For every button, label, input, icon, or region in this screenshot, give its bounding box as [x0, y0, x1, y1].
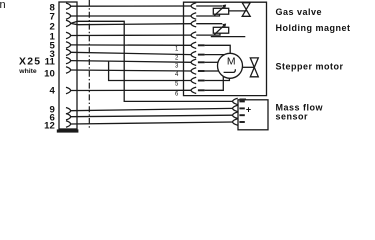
svg-text:sensor: sensor [276, 112, 309, 122]
wire pin 1 to holding magnet b [71, 34, 191, 36]
wire pin 5 to stepper 1 [71, 44, 191, 46]
connector X25 body [59, 2, 77, 129]
gas valve contact b [191, 13, 196, 19]
stepper wire ferrule 1 [198, 44, 205, 46]
gas valve contact a [191, 3, 196, 9]
holding magnet contact b [191, 32, 196, 38]
wire pin 7 to gas valve b [71, 15, 191, 17]
stepper wire 4 to motor [205, 70, 219, 72]
mass flow sensor contact 2 [233, 105, 238, 111]
mass flow sensor contact 4 [233, 119, 238, 125]
stepper motor step symbol [224, 69, 236, 72]
svg-text:M: M [227, 57, 236, 68]
mass flow sensor contact 1 [233, 98, 238, 104]
connector X25 pin 11 socket contact [66, 57, 71, 63]
gas valve body (valve symbol) [242, 3, 250, 17]
connector X25 pin 5 socket contact [66, 42, 71, 48]
stepper wire 1 to motor top [205, 45, 231, 53]
stepper contact 5 [191, 77, 196, 83]
stepper wire 2 to motor [205, 54, 225, 56]
wire pin 12 to mass flow sensor 4 [71, 122, 233, 124]
connector X25 pin 3 socket contact [66, 49, 71, 55]
connector X25 bottom bar [57, 129, 79, 132]
wire pin 10 to stepper 4 [71, 70, 191, 71]
holding magnet coil wire b end [196, 33, 220, 35]
device enclosure box [184, 2, 267, 95]
mass flow sensor box [238, 100, 268, 130]
stepper wire ferrule 4 [198, 70, 205, 72]
holding magnet coil arrow [214, 24, 225, 34]
holding magnet coil [213, 27, 228, 33]
mass flow sensor ferrule 4 [239, 121, 244, 123]
stepper wire ferrule 2 [198, 54, 205, 56]
mass flow sensor contact 3 [233, 112, 238, 118]
connector X25 pin 6 socket contact [66, 114, 71, 120]
stepper wire 6 to motor bottom left [205, 76, 224, 90]
connector X25 pin 9 socket contact [66, 108, 71, 114]
stepper contact 6 [191, 87, 196, 93]
wire pin 4 to stepper 6 [71, 89, 191, 91]
connector X25 pin 8 socket contact [66, 3, 71, 9]
stepper wire 5 to motor bottom [205, 78, 230, 80]
connector X25 pin 12 socket contact [66, 121, 71, 127]
stepper motor link to valve [243, 66, 255, 68]
stepper valve body symbol [250, 58, 258, 77]
svg-text:white: white [18, 68, 37, 75]
connector X25 pin 2 socket contact [66, 20, 71, 26]
svg-text:4: 4 [49, 86, 55, 97]
svg-text:X25: X25 [19, 57, 41, 68]
connector X25 pin 10 socket contact [66, 67, 71, 73]
gas valve coil wire b end [196, 14, 219, 16]
stepper wire 3 to motor [205, 61, 219, 63]
wire pin 3 to stepper 2 [71, 52, 191, 54]
svg-text:Stepper motor: Stepper motor [276, 62, 344, 72]
wire pin 11 to stepper 3 [71, 61, 191, 63]
svg-text:11: 11 [45, 57, 56, 68]
svg-text:Gas valve: Gas valve [276, 7, 323, 17]
panel boundary dash-dot line [88, 0, 90, 128]
holding magnet coil wire a end [196, 23, 222, 25]
gas valve coil arrow [214, 5, 225, 15]
gas valve coil wire a end [196, 5, 222, 7]
wire pin 6 to mass flow sensor 3 [71, 115, 233, 117]
wire pin 2 branch to mass flow sensor 1 [71, 21, 233, 101]
mass flow sensor ferrule 2 [239, 107, 244, 109]
holding magnet armature line [211, 36, 246, 38]
stepper contact 3 [191, 59, 196, 65]
connector X25 pin 4 socket contact [66, 87, 71, 93]
wire pin 9 to mass flow sensor 2 [71, 108, 233, 110]
svg-text:12: 12 [44, 120, 55, 131]
stepper contact 2 [191, 51, 196, 57]
svg-text:+: + [246, 104, 251, 114]
svg-text:n: n [0, 0, 6, 11]
gas valve coil [213, 8, 228, 14]
stepper wire ferrule 5 [198, 80, 205, 82]
holding magnet contact a [191, 21, 196, 27]
mass flow sensor pin 1 tick [240, 99, 246, 100]
svg-text:10: 10 [44, 69, 55, 80]
wire pin 11 branch to stepper 5 [109, 61, 191, 80]
stepper contact 4 [191, 68, 196, 74]
svg-text:Holding magnet: Holding magnet [276, 23, 351, 33]
connector X25 pin 1 socket contact [66, 32, 71, 38]
stepper wire ferrule 3 [198, 61, 205, 63]
stepper wire ferrule 6 [198, 89, 205, 91]
mass flow sensor ferrule 1 [239, 100, 244, 102]
connector X25 pin 7 socket contact [66, 13, 71, 19]
gas valve link to valve body [229, 10, 247, 12]
wire pin 8 to gas valve a [71, 5, 191, 7]
wire pin 2 to holding magnet a [71, 23, 191, 24]
stepper contact 1 [191, 42, 196, 48]
mass flow sensor ferrule 3 [239, 114, 244, 116]
stepper motor M1 circle [218, 53, 243, 78]
